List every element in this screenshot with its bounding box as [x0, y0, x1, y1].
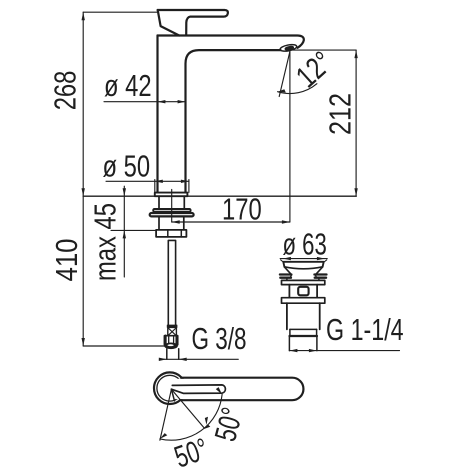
- lever pivot bevel line: [171, 389, 174, 401]
- arrow rotation arc top end: [216, 387, 222, 394]
- arrow G38 right (points left): [179, 358, 187, 361]
- arrow ø42 right: [178, 100, 186, 103]
- rotation ray left: [160, 389, 172, 440]
- lever top view handle outline: [180, 378, 303, 401]
- svg-text:G 3/8: G 3/8: [192, 322, 247, 356]
- drain neck ticks: [287, 279, 319, 281]
- G3/8 thread tails: [167, 349, 179, 360]
- drain lower flange: [282, 298, 325, 304]
- dim ø50 line: [106, 180, 189, 182]
- drain cap top: [283, 262, 323, 267]
- arrow 170 left: [172, 220, 180, 223]
- lever top view inner circle: [157, 375, 183, 401]
- svg-text:410: 410: [50, 239, 84, 282]
- hose crimp cross lines: [168, 328, 176, 335]
- faucet spout underside and body right edge: [186, 50, 281, 192]
- drain thread collar line: [290, 335, 318, 337]
- arrow G114 left: [289, 349, 297, 352]
- G3/8 dimension line: [159, 358, 238, 360]
- top extension line: [83, 11, 158, 13]
- drain thread upper: [290, 329, 317, 336]
- arrow 212 bottom down: [354, 188, 357, 196]
- lever top view inner slot: [171, 385, 225, 394]
- lever top view handle mask: [176, 379, 302, 399]
- arrow max45 bottom (points up): [123, 230, 126, 238]
- svg-text:ø 50: ø 50: [103, 150, 151, 184]
- lever top view outer circle: [154, 372, 186, 404]
- arrow rotation arc bottom end: [160, 433, 167, 439]
- rotation ray middle: [171, 389, 204, 428]
- svg-text:ø 63: ø 63: [283, 228, 327, 262]
- arrow 268 bottom down: [82, 188, 85, 196]
- 410 bottom tick line: [83, 345, 165, 347]
- dim 212 vertical line: [355, 50, 357, 196]
- drain ø63 extension ticks: [281, 260, 327, 263]
- arrow ø50 right: [181, 180, 189, 183]
- G3/8 nut side facets: [166, 336, 177, 345]
- faucet body top and spout: [158, 36, 304, 48]
- faucet lever left edge: [158, 10, 180, 36]
- drain body sides: [289, 285, 317, 298]
- arrow G114 right: [309, 349, 317, 352]
- countertop line: [83, 195, 356, 197]
- drain tail pipe: [287, 303, 320, 329]
- drain seal band 2: [280, 277, 326, 279]
- faucet body left edge: [156, 36, 158, 193]
- 12 degree arc: [278, 84, 317, 94]
- faucet lever handle (side view): [158, 10, 228, 35]
- base flange: [155, 193, 188, 197]
- supply hose: [168, 240, 175, 325]
- dim 212 top tick: [291, 49, 356, 51]
- arrow G38 left (points right): [159, 358, 167, 361]
- aerator inner ellipse: [285, 46, 294, 51]
- arrow 12deg arc end: [278, 89, 286, 92]
- svg-text:212: 212: [324, 93, 358, 135]
- arrow ø63 right: [317, 257, 325, 260]
- dimension 268/410 vertical line: [82, 12, 84, 346]
- G3/8 nut bottom ellipse: [165, 343, 178, 348]
- svg-text:170: 170: [222, 192, 262, 226]
- dim ø42 line: [104, 101, 186, 103]
- G1-1/4 dimension line: [289, 350, 399, 352]
- arrow max45 top (points down): [123, 188, 126, 196]
- mounting nut: [156, 230, 186, 237]
- max45 dimension vertical line: [123, 186, 125, 277]
- drain upper flange: [282, 280, 325, 284]
- max45 bottom reference line: [111, 229, 156, 231]
- arrow ø63 left: [283, 257, 291, 260]
- drain tail step line: [290, 328, 317, 330]
- dim 170 line: [172, 221, 290, 223]
- arrow 410 bottom down: [82, 338, 85, 346]
- drain cone skirt: [285, 267, 323, 275]
- 12 degree tilted line: [279, 52, 290, 97]
- svg-text:max 45: max 45: [89, 203, 123, 281]
- arrow rotation arc at middle ray upper: [205, 417, 208, 425]
- arrow 268 top up: [82, 12, 85, 20]
- ø50 extension lines: [155, 180, 189, 193]
- drain seal band 1: [280, 273, 327, 275]
- arrow rotation arc at middle ray lower: [203, 424, 211, 429]
- hose crimp collar: [168, 327, 177, 335]
- svg-text:ø 42: ø 42: [104, 69, 152, 103]
- G3/8 nut: [164, 336, 177, 345]
- drain overflow window: [298, 287, 308, 296]
- washer upper: [153, 209, 190, 212]
- aerator outer ellipse: [280, 43, 298, 52]
- arrow ø50 left: [155, 180, 163, 183]
- drain cone between bands: [290, 275, 316, 277]
- mounting nut facets: [168, 230, 182, 237]
- drain thread lower: [289, 336, 317, 351]
- spout outlet extension line: [289, 52, 291, 223]
- svg-text:268: 268: [48, 71, 82, 111]
- mounting shank lower: [159, 217, 184, 230]
- arrow 170 right: [282, 220, 290, 223]
- arrow 212 top up: [354, 50, 357, 58]
- svg-text:G 1-1/4: G 1-1/4: [326, 313, 404, 347]
- drain cap bottom arc: [284, 267, 322, 269]
- rotation arc: [160, 395, 222, 441]
- drain ø63 dimension line: [280, 258, 327, 260]
- faucet centerline below counter: [171, 190, 173, 223]
- washer lower: [150, 213, 194, 216]
- mounting shank upper: [159, 196, 184, 209]
- arrow ø42 left: [157, 100, 165, 103]
- hose ferrule: [167, 325, 177, 327]
